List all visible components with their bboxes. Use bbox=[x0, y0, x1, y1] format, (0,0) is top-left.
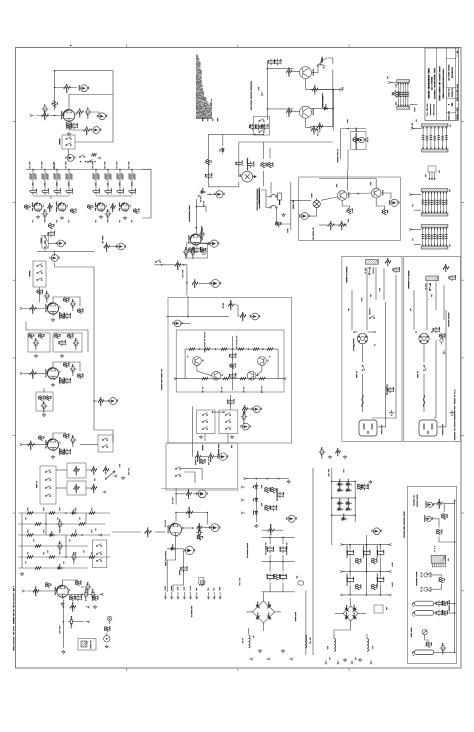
label tone R bottom 3 bbox=[119, 220, 120, 222]
label master extra 9 bbox=[83, 550, 84, 552]
label CN2 top left bbox=[416, 119, 417, 121]
tube triode V2A pin numbers bbox=[42, 205, 45, 207]
wire to bright jack bbox=[55, 87, 77, 89]
bridge rectifier BR2 diode refdes bbox=[346, 605, 347, 609]
diode CR10 1N4007 bbox=[337, 483, 344, 486]
title block address line 2 bbox=[434, 68, 435, 98]
wire CN4 lead left a bbox=[411, 194, 421, 196]
jack J4 bbox=[93, 127, 100, 134]
wire Q4 emitter bbox=[342, 200, 349, 208]
lamp DS1 bbox=[104, 636, 110, 642]
resistor R4 value bbox=[79, 113, 80, 117]
diode CR15 1N4007 refdes bbox=[348, 498, 349, 503]
label C182 bbox=[59, 626, 60, 634]
wire CN5 lead left b bbox=[414, 244, 421, 246]
capacitor C58 side value bbox=[243, 418, 244, 423]
resistor R117 value bbox=[97, 596, 98, 600]
capacitor C28 bypass value bbox=[70, 378, 71, 383]
label effects send bbox=[337, 149, 338, 163]
junction V1B feed a bbox=[196, 206, 198, 208]
jack J6B bbox=[118, 243, 125, 250]
capacitor C29 bbox=[41, 403, 48, 408]
tube triode V3A pin numbers bbox=[105, 205, 108, 207]
capacitor C12 tone L refdes bbox=[53, 190, 54, 193]
connector CN3 pins bbox=[430, 172, 435, 178]
resistor R29 value bbox=[72, 334, 73, 338]
capacitor C19 value bbox=[54, 231, 55, 236]
resistor R90 bbox=[208, 455, 214, 458]
capacitor C71 470uF bbox=[267, 546, 273, 553]
capacitor C27 value bbox=[72, 370, 73, 375]
capacitor C81 220uF value bbox=[383, 550, 384, 555]
wire master vert b bbox=[45, 513, 47, 535]
wire slave out bbox=[434, 651, 455, 653]
switch S11 line bbox=[320, 62, 326, 68]
patent note line 12 bbox=[209, 105, 210, 119]
connector CN2 header bottom bbox=[422, 149, 449, 152]
resistor R28 refdes bbox=[54, 334, 55, 337]
jack J2 bright tip label bbox=[88, 87, 89, 89]
jack J28 small bbox=[107, 616, 112, 621]
capacitor C60 refdes bbox=[432, 328, 433, 331]
label TRS bbox=[367, 137, 368, 142]
capacitor C57 feed value bbox=[233, 399, 234, 404]
transformer T2 primary bbox=[426, 276, 439, 281]
wire V6 grid bbox=[27, 590, 58, 592]
jack J7 bbox=[51, 255, 58, 262]
capacitor C74 100uF bbox=[280, 573, 286, 580]
title block scale row bbox=[448, 111, 449, 120]
resistor R55b refdes bbox=[200, 248, 201, 252]
wire V5A plate bbox=[53, 433, 66, 440]
terminal reg a bbox=[241, 486, 245, 488]
jack J18 refdes bbox=[240, 425, 241, 428]
label tone L pot 4 bbox=[65, 162, 66, 169]
resistor R40 cathode value bbox=[64, 450, 65, 454]
tube triode V4B pin number 2 bbox=[53, 379, 56, 382]
tube triode V2B drive pin number 2 bbox=[62, 211, 65, 214]
wire sel left a bbox=[354, 331, 357, 333]
ground V2B bbox=[60, 216, 63, 220]
voltage selector VS1 bbox=[357, 333, 367, 343]
capacitor C39 bbox=[256, 124, 261, 131]
bridge rectifier BR2 diode refdes bbox=[353, 605, 354, 609]
capacitor C65 value bbox=[87, 588, 88, 593]
label +17V solo bbox=[119, 464, 120, 467]
wire PSU top rail bbox=[246, 478, 289, 480]
label master extra 4 bbox=[33, 539, 34, 541]
ground V1A cathode bbox=[67, 132, 70, 136]
transformer T1 primary bbox=[366, 260, 379, 265]
resistor R79 refdes bbox=[229, 364, 230, 367]
wire to K4 bbox=[80, 444, 98, 446]
capacitor C86 bbox=[436, 600, 441, 607]
label tone R pot 4 bbox=[128, 162, 129, 169]
resistor R110 bbox=[89, 556, 95, 559]
resistor R34 value bbox=[43, 396, 44, 400]
resistor R131 bbox=[373, 584, 376, 590]
grid tick bottom 3 bbox=[348, 668, 350, 671]
capacitor C55 value bbox=[235, 353, 236, 358]
capacitor C56 value bbox=[235, 373, 236, 378]
resistor R84 bbox=[259, 377, 265, 380]
resistor R50 bbox=[262, 162, 265, 168]
terminal reg b bbox=[241, 499, 245, 501]
junction trem row2 bbox=[267, 108, 269, 110]
wire send bus bbox=[55, 263, 94, 422]
connector CN5 pin arrows bottom bbox=[422, 244, 447, 246]
resistor R37 refdes bbox=[30, 441, 31, 444]
patent note line 9 bbox=[205, 97, 206, 119]
resistor R105 bbox=[27, 534, 33, 537]
wire master rail 1 bbox=[18, 512, 110, 514]
capacitor C2 bbox=[85, 109, 92, 114]
resistor R50 value bbox=[265, 163, 266, 167]
connector CN4 pin arrows bottom bbox=[422, 211, 447, 213]
wire Q5 to J13 bbox=[381, 193, 391, 199]
resistor R92 bbox=[443, 267, 449, 270]
capacitor C71b refdes bbox=[71, 616, 72, 620]
resistor R139 bbox=[443, 611, 446, 616]
resistor R113 bbox=[33, 590, 39, 593]
wire R51 top bbox=[269, 148, 271, 158]
terminal rail HT2 bbox=[213, 592, 215, 599]
capacitor C36 bbox=[275, 59, 280, 66]
wire R50 top bbox=[262, 142, 264, 159]
resistor R117b value bbox=[72, 609, 73, 612]
wire to J9 bbox=[207, 193, 216, 195]
resistor R124 bbox=[266, 487, 269, 493]
grid tick left 5 bbox=[13, 435, 16, 437]
junction board edge c bbox=[454, 603, 456, 605]
connector CN7 small bbox=[199, 578, 204, 585]
wire tone L col LOW bbox=[32, 170, 34, 189]
wire to J3 bbox=[90, 112, 99, 116]
bridge rectifier BR2 diode refdes bbox=[346, 612, 347, 616]
wire J16 out bbox=[181, 322, 190, 324]
capacitor C59 refdes bbox=[448, 276, 449, 279]
capacitor C30 value bbox=[72, 441, 73, 446]
title block po box bbox=[427, 104, 428, 116]
resistor R94 value bbox=[337, 454, 338, 456]
terminal EQ left bbox=[174, 377, 178, 379]
connector CN3 housing bbox=[428, 166, 436, 172]
wire V4B plate bbox=[53, 362, 66, 369]
resistor R27 bbox=[40, 334, 43, 339]
revision note left margin bbox=[13, 586, 14, 650]
resistor R37 value bbox=[30, 446, 31, 450]
terminal input IN bbox=[30, 114, 34, 116]
patent note line 10 bbox=[206, 101, 207, 119]
label CN2 right bbox=[450, 124, 451, 126]
relay K3 boost enclosure bbox=[33, 261, 46, 287]
capacitor C53 value bbox=[267, 124, 268, 129]
switch S7b master bbox=[96, 552, 102, 555]
resistor R13 bbox=[72, 209, 75, 214]
patent note line 4 bbox=[199, 62, 200, 119]
label +17V reverb bbox=[348, 219, 349, 222]
wire HV rung 2 bbox=[332, 497, 355, 499]
resistor R112 value bbox=[147, 533, 148, 537]
resistor R123 bbox=[198, 535, 201, 540]
capacitor C18 refdes bbox=[107, 209, 108, 212]
switch S7a master bbox=[96, 544, 102, 547]
resistor R35 value bbox=[50, 396, 51, 399]
resistor R73 bbox=[189, 348, 195, 351]
resistor R40 cathode refdes bbox=[59, 448, 60, 455]
wire mixer feed rail bbox=[166, 316, 229, 318]
resistor R19 bbox=[92, 153, 97, 156]
junction HVF b1 bbox=[366, 544, 368, 546]
resistor R15 value bbox=[112, 208, 113, 212]
capacitor C64 value bbox=[73, 558, 74, 563]
resistor R128 value bbox=[279, 575, 280, 579]
resistor R129b refdes bbox=[357, 484, 358, 489]
resistor R97 refdes bbox=[93, 466, 94, 469]
wire clean rhy drop bbox=[290, 182, 292, 230]
label master extra 5 bbox=[69, 539, 70, 541]
junction bus g bbox=[119, 169, 121, 171]
transistor Q8 refdes bbox=[267, 360, 268, 362]
resistor R139 refdes bbox=[441, 611, 442, 615]
resistor R118 bbox=[106, 627, 109, 632]
label HIGH R bbox=[119, 183, 120, 186]
label HV top bbox=[328, 469, 329, 477]
resistor R121fb refdes bbox=[188, 507, 189, 513]
capacitor C25 refdes bbox=[58, 341, 59, 344]
resistor R129b bbox=[359, 484, 362, 490]
capacitor C16 tone R refdes bbox=[116, 190, 117, 193]
junction S1 a bbox=[80, 161, 82, 163]
jack J30 feedback tip label bbox=[433, 503, 434, 505]
label export wht bbox=[348, 308, 349, 310]
tube triode V3A refdes bbox=[95, 202, 96, 210]
tube triode V2B drive pin numbers bbox=[66, 205, 69, 207]
wire V1B to J10 bbox=[199, 243, 210, 245]
junction PSU c bbox=[278, 478, 280, 480]
wire K7 down bbox=[204, 434, 206, 442]
resistor R96 refdes bbox=[75, 484, 76, 487]
AC plug PL2 domestic bbox=[419, 420, 437, 436]
label EQ bottom a bbox=[202, 387, 203, 393]
label tone L pot 2 bbox=[41, 162, 42, 169]
resistor R28 bbox=[56, 334, 59, 339]
resistor R89 value bbox=[244, 411, 245, 414]
wire V6B to rails b bbox=[173, 579, 184, 592]
resistor R21 bbox=[38, 290, 41, 295]
jack J30 feedback bbox=[427, 502, 432, 507]
junction S1 d bbox=[94, 161, 96, 163]
capacitor C14 tone R value bbox=[99, 189, 100, 194]
title block phone bbox=[429, 104, 432, 115]
label LOW L bbox=[32, 183, 33, 185]
resistor R136 refdes bbox=[436, 530, 437, 534]
diode CR2 refdes bbox=[202, 188, 203, 191]
wire filter rail 2 bbox=[262, 561, 295, 563]
connector CN5 wires bbox=[423, 228, 447, 247]
capacitor C12 tone L bbox=[54, 188, 59, 195]
label C71 bbox=[265, 543, 266, 555]
resistor R31 value bbox=[68, 363, 69, 367]
wire filter rail 3 bbox=[262, 591, 295, 593]
resistor R65 tone R bbox=[97, 174, 100, 180]
capacitor C80 220uF refdes bbox=[363, 550, 364, 555]
grid tick right 1 bbox=[461, 121, 464, 123]
jack J9 bbox=[216, 191, 223, 198]
resistor R81 bbox=[202, 377, 208, 380]
resistor R135 bbox=[443, 513, 446, 519]
resistor R25 cathode bbox=[61, 314, 64, 319]
capacitor C1 refdes bbox=[44, 105, 45, 107]
capacitor C10 tone L value bbox=[36, 189, 37, 194]
label domestic plug bbox=[442, 424, 443, 435]
wire to J17 bbox=[248, 408, 253, 410]
diode CR5b bbox=[170, 547, 177, 550]
wire Q4 base bbox=[321, 197, 337, 200]
switch K1 contact b bbox=[66, 143, 72, 146]
title block checked row bbox=[452, 88, 453, 97]
bridge rectifier BR2 diode refdes bbox=[353, 612, 354, 616]
bridge rectifier BR1 diode refdes bbox=[268, 601, 269, 605]
capacitor C58 side refdes bbox=[243, 411, 244, 415]
capacitor C25 value bbox=[65, 340, 66, 345]
junction EQ r2 bbox=[215, 348, 217, 350]
capacitor C70 value bbox=[276, 505, 277, 510]
wire domestic extra b bbox=[413, 290, 415, 330]
junction HVF c1 bbox=[380, 544, 382, 546]
resistor R45 bbox=[286, 70, 292, 73]
capacitor C69 electrolytic bbox=[277, 492, 282, 499]
switch K8 contact b bbox=[225, 420, 231, 423]
wire Q1 collector to line bbox=[312, 66, 319, 73]
transistor Q1 tremolo refdes bbox=[313, 69, 314, 76]
resistor R16 bbox=[135, 209, 138, 214]
label sec B bbox=[310, 638, 311, 644]
jack J7 tip label bbox=[59, 257, 60, 259]
junction K7 out bbox=[212, 411, 214, 413]
ground V4A cathode bbox=[51, 318, 54, 322]
terminal sec b bbox=[266, 658, 270, 660]
bridge rectifier BR2 diode bbox=[351, 607, 357, 613]
resistor R70 value bbox=[177, 266, 178, 270]
tube triode V6B pin numbers bbox=[182, 527, 185, 529]
resistor R96 bbox=[74, 487, 80, 490]
label sec A bbox=[242, 638, 243, 643]
capacitor C82 100uF refdes bbox=[346, 577, 347, 582]
label K5 column a bbox=[257, 189, 258, 210]
transistor Q8 bbox=[258, 357, 267, 366]
wire K8 feed drop bbox=[230, 395, 232, 410]
wire V4A plate bbox=[53, 297, 66, 304]
junction grid bbox=[54, 115, 56, 117]
wire S8 out bbox=[184, 472, 195, 483]
junction EQ r1 bbox=[199, 348, 201, 350]
resistor R6 cathode refdes bbox=[66, 122, 67, 129]
wire BR1 left bbox=[246, 611, 253, 613]
tube triode V1B pin number 2 bbox=[196, 245, 199, 248]
resistor R101 bbox=[49, 512, 55, 515]
resistor R17 refdes bbox=[48, 224, 49, 227]
wire S8 to drop bbox=[181, 469, 203, 480]
title block divider col2 bbox=[445, 48, 447, 120]
terminal stage3 in bbox=[20, 372, 24, 374]
patent note line 2 bbox=[197, 55, 198, 119]
terminal att bottom bbox=[395, 101, 397, 105]
capacitor C34 value bbox=[192, 254, 193, 259]
resistor R70 bbox=[175, 264, 181, 267]
capacitor C41 electrolytic value bbox=[253, 162, 254, 167]
capacitor C60 bbox=[433, 327, 438, 334]
patent note line 6 bbox=[202, 86, 203, 119]
resistor R68 tone R bbox=[133, 174, 136, 180]
diode CR12 1N4007 refdes bbox=[339, 485, 340, 490]
wire V1B feed drop bbox=[195, 199, 197, 234]
label 120V b bbox=[379, 288, 380, 291]
wire to plug c bbox=[423, 374, 425, 412]
wire crunch to J6 bbox=[48, 242, 57, 244]
label rail HT2 bbox=[213, 588, 214, 591]
capacitor C15 tone R bbox=[105, 188, 110, 195]
junction bus d bbox=[68, 169, 70, 171]
switch K5 contact b bbox=[270, 205, 277, 208]
tube triode V4B pin numbers bbox=[59, 371, 62, 373]
connector CN6 pins bbox=[433, 563, 446, 566]
switch S11 line bbox=[317, 61, 322, 66]
wire export extra a bbox=[383, 268, 385, 300]
resistor R116 bbox=[71, 596, 74, 601]
jack J22 bbox=[288, 515, 295, 522]
jack J14 tip label bbox=[220, 282, 221, 284]
resistor R37 bbox=[28, 443, 35, 446]
wire HV rung 1 bbox=[332, 480, 355, 482]
solo enclosure B bbox=[67, 481, 86, 495]
junction V1B feed b bbox=[196, 227, 198, 229]
label sec wire red bbox=[329, 657, 330, 659]
label LFO part a bbox=[202, 118, 203, 121]
label master row5 4 bbox=[75, 552, 76, 554]
junction HV r1 bbox=[354, 481, 356, 483]
label master extra 10 bbox=[47, 550, 48, 552]
label master extra 3 bbox=[79, 517, 80, 519]
rotary switch S10a bbox=[421, 573, 431, 577]
tube triode V3B refdes bbox=[119, 202, 120, 210]
resistor R63 refdes bbox=[330, 221, 331, 224]
tube triode V6A pin numbers bbox=[68, 589, 71, 591]
resistor R71 value bbox=[194, 285, 195, 288]
potentiometer P3 HIGH element bbox=[54, 174, 57, 180]
export AC wiring enclosure bbox=[342, 256, 402, 441]
capacitor C68 value bbox=[186, 566, 187, 571]
wire K3 to V2 grid bbox=[39, 287, 41, 302]
label rhythm bbox=[202, 445, 203, 451]
label transparent clean bbox=[259, 188, 260, 204]
resistor R97 value bbox=[93, 472, 94, 475]
capacitor C74 100uF value bbox=[286, 574, 287, 579]
effects jack enclosure bbox=[351, 131, 366, 149]
wire PSU right drop a bbox=[305, 590, 307, 655]
wire tone L col HIGH bbox=[56, 170, 58, 189]
wire pot to R90 bbox=[202, 456, 208, 458]
wire grid V1A bbox=[36, 115, 65, 117]
capacitor C3 bypass value bbox=[77, 123, 78, 128]
diode CR4 bbox=[49, 534, 56, 537]
switch K10 contact c bbox=[259, 130, 265, 133]
potentiometer P10 master wiper bbox=[197, 453, 199, 455]
resistor R24 value bbox=[82, 309, 83, 313]
resistor R100 bbox=[27, 512, 33, 515]
switch K10 contact b bbox=[259, 125, 265, 128]
label C140 bbox=[368, 484, 369, 490]
